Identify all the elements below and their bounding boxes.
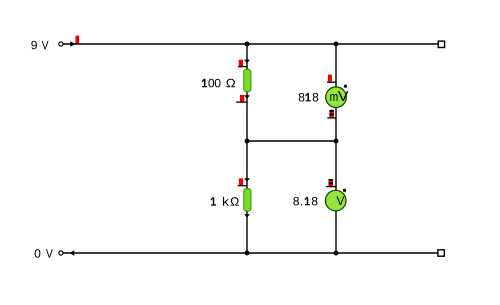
probe mark below M1 (striped) xyxy=(327,110,336,118)
label 1 kΩ xyxy=(211,197,239,206)
junction dot top left xyxy=(245,42,250,47)
junction dot bottom right xyxy=(334,251,339,256)
probe mark above R2 xyxy=(238,178,248,185)
meter M2 voltmeter body xyxy=(325,190,346,211)
reading 8.18 xyxy=(293,197,317,206)
probe mark above R1 xyxy=(238,60,248,67)
label 100 Ω xyxy=(202,79,235,88)
probe mark at 9V wire xyxy=(76,36,80,44)
current arrow at 0V (pointing left) xyxy=(70,250,75,256)
meter label mV xyxy=(330,91,348,101)
node 0V input circle xyxy=(59,251,63,255)
wire left column xyxy=(246,44,248,253)
junction dot mid left xyxy=(245,139,250,144)
junction dot mid right xyxy=(334,139,339,144)
label 0 V xyxy=(35,249,53,258)
probe mark above M1 xyxy=(327,75,337,83)
current arrow at 9V (pointing right) xyxy=(70,41,75,47)
current arrow below R1 (down) xyxy=(244,95,250,99)
wire top rail xyxy=(63,43,438,45)
resistor R1 100 Ohm body xyxy=(244,69,251,91)
current arrow below R2 (down) xyxy=(244,214,250,218)
meter label V xyxy=(337,197,345,206)
meter M1 polarity dot xyxy=(344,85,347,88)
current arrow above R1 (down) xyxy=(244,60,250,64)
current arrow above R2 (down) xyxy=(244,178,250,182)
node 9V input circle xyxy=(59,42,63,46)
junction dot bottom left xyxy=(245,251,250,256)
meter M2 polarity dot xyxy=(343,189,346,192)
resistor R2 1 kOhm body xyxy=(244,189,251,211)
terminal square top right xyxy=(438,41,444,47)
wire right column xyxy=(335,44,337,253)
wire bottom rail xyxy=(63,252,438,254)
probe mark above M2 (striped) xyxy=(326,179,337,187)
wire middle link xyxy=(247,140,336,142)
label 9 V xyxy=(31,41,48,50)
meter M1 millivoltmeter body xyxy=(326,87,347,108)
junction dot top right xyxy=(334,42,339,47)
reading 818 xyxy=(299,93,319,102)
terminal square bottom right xyxy=(438,250,444,256)
probe mark below R1 xyxy=(236,95,247,102)
